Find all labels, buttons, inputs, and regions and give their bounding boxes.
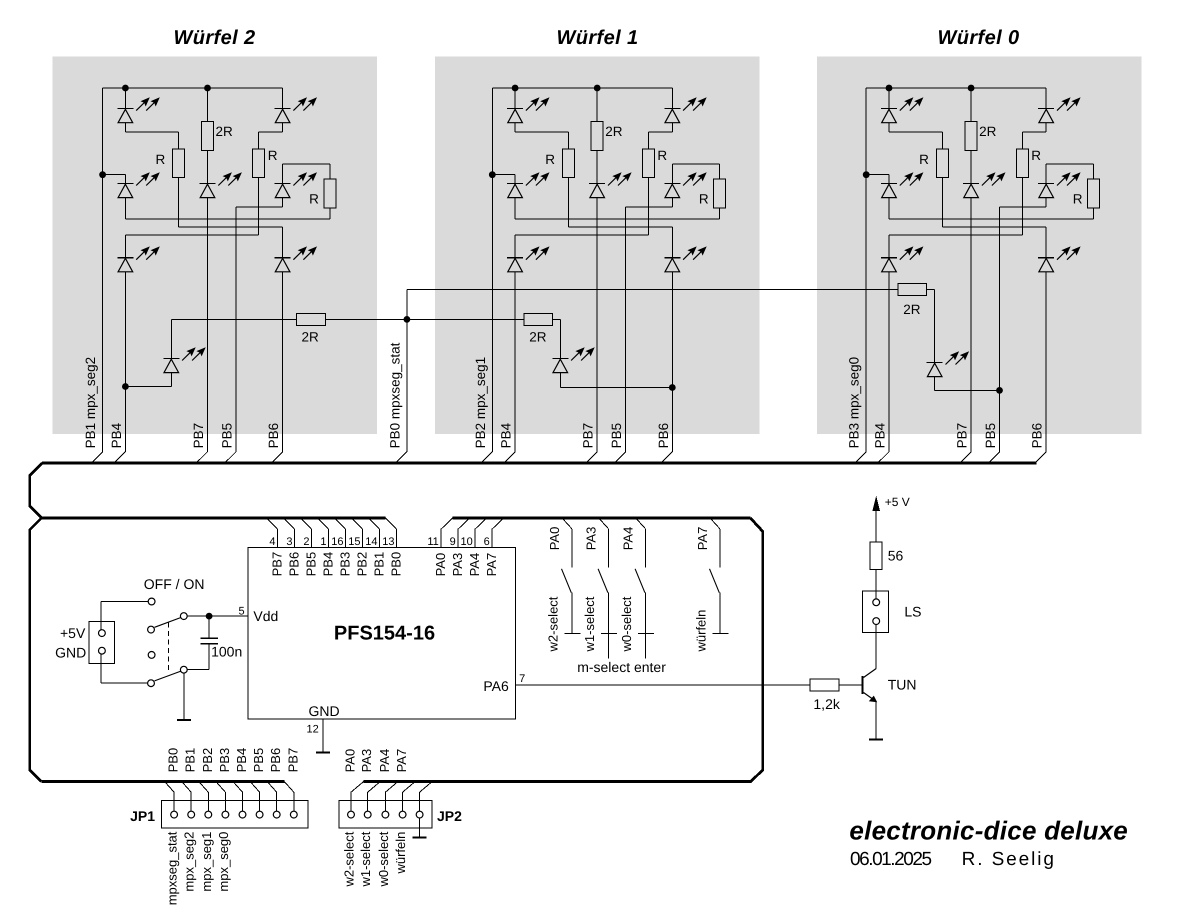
wire W0 D1 cathode [888,88,890,109]
wire W2 D8 cathode [170,319,172,358]
wire bus exit JP1-7 [267,782,277,793]
wire switch w2-select bottom [571,593,573,634]
svg-text:PA3: PA3 [359,749,374,773]
wire bus exit JP1-5 [233,782,243,793]
svg-text:R: R [268,148,278,163]
capacitor C1 100n [200,616,218,670]
LED W2 D7 [275,246,317,271]
svg-text:PA0: PA0 [433,553,448,577]
svg-text:PB2 mpx_seg1: PB2 mpx_seg1 [473,357,488,449]
svg-text:PB3: PB3 [217,748,232,773]
wire W2 D3 anode [124,198,126,219]
LED W0 D6 [881,246,923,271]
wire W1 PB6 column [671,272,673,452]
wire bus entry PB6 W0 [1036,452,1046,462]
svg-text:PA3: PA3 [584,527,599,551]
wire W2 D5 anode [282,198,284,207]
wire cap to switch F [187,669,209,671]
board outline bottom edge left segment [41,780,284,783]
wire W0 D2 cathode [1045,88,1047,109]
svg-text:PB7: PB7 [191,423,206,449]
wire W0 D2 to R2 [1022,131,1046,133]
wire bus exit pin 1 [318,518,329,529]
svg-text:PB0: PB0 [166,748,181,773]
pad JP1 pin 3 [205,811,212,818]
wire bus exit JP2-5 [420,782,433,793]
wire W0 R3 top lead [1093,164,1095,179]
wire W0 R2 top lead [1021,132,1023,149]
svg-text:11: 11 [427,536,438,548]
svg-text:2R: 2R [302,330,320,345]
wire W0 2Rb to D8 [927,289,935,291]
wire W1 D1 cathode [514,88,516,109]
svg-text:electronic-dice deluxe: electronic-dice deluxe [849,816,1128,846]
LED W0 D4 [963,172,1005,197]
wire MCU pin 12 GND [322,719,324,752]
switch terminal C [180,613,187,620]
wire W2 D8 anode [170,373,172,387]
wire top rail W0 [866,87,1046,89]
wire W1 D2 to R2 [648,131,672,133]
wire switch w&#252;rfeln top [719,529,721,568]
pad JP1 pin 5 [239,811,246,818]
svg-text:56: 56 [888,547,904,563]
wire W0 PB7 column [970,198,972,452]
svg-text:R: R [699,192,709,207]
wire bus exit pin 6 [492,518,504,529]
node W0 PB5/D8 [996,387,1003,394]
wire W1 D6 cathode [514,235,516,258]
wire switch w2-select top [571,529,573,568]
wire bus exit pin 16 [335,518,346,529]
wire bus entry PB6 W2 [273,452,283,462]
node top rail A W1 [512,85,519,92]
wire MCU pin 13 PB0 [396,529,398,547]
wire W0 R3 bottom lead [1093,207,1095,219]
board bus band bottom edge right segment [453,517,751,520]
wire bus exit JP2-1 [351,782,364,793]
switch S1 mechanical link [168,623,170,674]
wire bus entry PB2 mpx_seg1 W1 [482,452,492,462]
pad JP1 pin 1 [171,811,178,818]
wire 1,2k to base [839,684,862,686]
LED W2 D5 [275,172,317,197]
wire bus exit JP1-2 [182,782,192,793]
ground switch [177,719,191,721]
LED W2 D8 [163,347,205,372]
wire bus entry PB0 [397,452,407,462]
svg-text:R: R [919,152,929,167]
wire JP2 pin 5 [419,792,421,811]
svg-text:6: 6 [484,536,490,548]
wire bus exit pin 13 [386,518,397,529]
node top rail B W1 [594,85,601,92]
wire bus exit pin 2 [301,518,312,529]
wire W0 D8 cathode [934,290,936,363]
wire top rail W1 [492,87,672,89]
wire W2 PB7 column [207,198,209,452]
wire MCU pin 6 PA7 [491,529,493,547]
svg-text:PB5: PB5 [251,748,266,773]
wire pin 7 PA6 to base resistor [516,684,811,686]
wire bus exit JP1-6 [250,782,260,793]
wire W1 R3 bottom lead [719,207,721,219]
wire W0 D3-R3 bus [889,218,1094,220]
wire W0 D8 anode [934,377,936,391]
pad LS 2 [873,618,880,625]
pad JP1 pin 4 [222,811,229,818]
wire JP1 pin 2 [190,792,192,811]
svg-text:2R: 2R [605,124,623,139]
LED W1 D7 [664,246,706,271]
wire switch w0-select bottom [645,593,647,634]
wire W0 D5 cathode [1045,164,1047,183]
wire R 56 to LS [875,570,877,600]
wire W2 D7 cathode [282,227,284,258]
pad GND [99,647,106,654]
wire PB0 net to 2Rb W0 [407,289,898,291]
wire LS to collector [875,625,877,669]
wire JP1 pin 4 [224,792,226,811]
wire W1 D1 anode [514,123,516,132]
board outline bottom edge right segment [364,518,763,782]
wire bus exit JP1-4 [216,782,226,793]
+5V supply arrow [872,496,880,511]
wire W1 PB5 column [625,207,627,452]
LED W0 D2 [1038,97,1080,122]
LED W0 D3 [881,172,923,197]
svg-text:12: 12 [307,723,319,735]
wire W2 D5-R3 top [283,163,330,165]
wire JP1 pin 5 [242,792,244,811]
svg-text:14: 14 [365,536,377,548]
switch terminal A [148,598,155,605]
svg-text:R. Seelig: R. Seelig [962,849,1056,870]
wire W2 R1 bottom lead [178,178,180,228]
node Vdd cap junction [206,613,213,620]
svg-text:PB1: PB1 [183,748,198,773]
wire W1 R2 to D6 [515,234,648,236]
wire W2 D5 cathode [282,164,284,183]
wire W0 R1 top lead [941,132,943,149]
svg-text:PB5: PB5 [609,423,624,449]
switch terminal E [148,680,155,687]
transistor Q1 TUN [863,669,878,703]
wire left column PB-seg W1 [491,88,493,452]
wire W0 D3 cathode [888,175,890,184]
svg-text:w1-select: w1-select [582,596,597,652]
wire W0 node to D3 [866,174,889,176]
svg-text:PA6: PA6 [483,678,509,694]
wire W1 D3-R3 bus [515,218,720,220]
wire switch F to ground [183,673,185,720]
wire MCU pin 16 PB3 [345,529,347,547]
node left column W0 [863,171,870,178]
wire W0 D3 anode [888,198,890,219]
wire W1 R1 bottom lead [567,178,569,228]
svg-text:PB5: PB5 [304,552,319,577]
svg-text:LS: LS [904,604,921,620]
wire switch w1-select bottom [608,593,610,634]
pad JP1 pin 2 [188,811,195,818]
wire W1 D8 cathode [559,319,561,358]
wire W1 R3 top lead [719,164,721,179]
wire left column PB-seg W0 [865,88,867,452]
resistor 2Rb W2 [297,313,326,325]
wire W2 R3 top lead [329,164,331,179]
pad JP1 pin 7 [273,811,280,818]
wire W2 PB6 column [282,272,284,452]
wire W0 D5 anode [1045,198,1047,207]
wire up to GND pad [100,651,102,684]
pad LS 1 [873,599,880,606]
wire W0 R2 to D6 [889,234,1022,236]
svg-text:GND: GND [309,703,340,719]
wire MCU pin 2 PB5 [311,529,313,547]
svg-text:7: 7 [519,673,525,685]
switch terminal D [148,652,155,659]
wire MCU pin 1 PB4 [328,529,330,547]
node top rail B W0 [968,85,975,92]
wire W2 D1 to R1 [125,131,178,133]
wire W2 R2 bottom lead [258,178,260,236]
wire W1 node to D3 [492,174,515,176]
svg-text:+5V: +5V [60,625,86,641]
wire bus entry PB5 W0 [990,452,1000,462]
wire bus exit pin 15 [352,518,363,529]
LED W1 D5 [664,172,706,197]
wire W1 2R top lead [596,88,598,122]
switch w2-select contact bar [564,632,580,634]
wire W0 D5-R3 top [1046,163,1093,165]
wire W1 2R to D4 [596,150,598,183]
svg-text:PB6: PB6 [287,552,302,577]
wire W2 D5 to PB5 [236,206,283,208]
wire JP2 pin 1 [350,792,352,811]
LED W1 D8 [552,347,594,372]
svg-text:PB3: PB3 [338,552,353,577]
resistor 2Rb W0 [898,284,927,296]
svg-text:PB5: PB5 [983,423,998,449]
svg-text:PB7: PB7 [581,423,596,449]
pad JP2 pin 1 [348,811,355,818]
resistor 2R W1 [591,122,603,151]
wire W0 PB4 column [888,272,890,452]
wire PB0 net to 2Rb W1 [407,318,524,320]
svg-text:PB5: PB5 [220,423,235,449]
resistor R1 W1 [562,149,574,178]
svg-text:9: 9 [450,536,456,548]
wire bus exit pin 9 [458,518,470,529]
wire PB0 mpxseg_stat column [406,290,408,452]
svg-text:PB4: PB4 [321,552,336,577]
Wuerfel 0 background box [817,56,1142,434]
wire switch w&#252;rfeln bottom [719,593,721,634]
wire emitter to ground [875,702,877,740]
resistor R2 W2 [253,149,265,178]
resistor R2 W0 [1016,149,1028,178]
node left column W2 [99,171,106,178]
wire W1 R2 top lead [647,132,649,149]
resistor R3 W1 [714,179,726,208]
node top rail A W2 [122,85,129,92]
svg-text:PB4: PB4 [499,422,514,448]
wire W1 R1 top lead [567,132,569,149]
svg-text:06.01.2025: 06.01.2025 [850,849,931,870]
wire W0 R2 bottom lead [1021,178,1023,236]
pad JP2 pin 2 [364,811,371,818]
MCU U1 PFS154-16 body [248,547,515,719]
switch S1 OFF/ON lever 2 [155,671,181,681]
resistor R3 W2 [324,179,336,208]
svg-text:TUN: TUN [888,676,917,692]
wire bus exit pin 4 [267,518,278,529]
svg-text:w2-select: w2-select [545,596,560,652]
wire bus entry PB7 W0 [961,452,971,462]
svg-text:w2-select: w2-select [342,831,357,887]
svg-text:PA7: PA7 [394,749,409,773]
resistor 1,2k [810,679,839,691]
LED W1 D3 [507,172,549,197]
wire W0 2R top lead [970,88,972,122]
wire W0 R1 to D7 [942,226,1046,228]
wire JP1 pin 3 [207,792,209,811]
svg-text:PA0: PA0 [343,749,358,773]
svg-text:w1-select: w1-select [358,831,373,887]
resistor R1 W0 [936,149,948,178]
switch w2-select lever [562,569,572,593]
node left column W1 [489,171,496,178]
svg-text:JP2: JP2 [437,808,462,824]
LED W2 D2 [275,97,317,122]
wire W2 R2 top lead [258,132,260,149]
wire bus entry PB6 W1 [662,452,672,462]
Wuerfel 1 background box [435,56,759,434]
wire W2 D1 cathode [124,88,126,109]
svg-text:100n: 100n [211,644,242,660]
wire MCU pin 15 PB2 [362,529,364,547]
svg-text:PA4: PA4 [377,749,392,773]
wire bus exit PA7 [711,519,720,529]
wire W2 R1 top lead [178,132,180,149]
wire JP2 pin 2 [367,792,369,811]
pad JP1 pin 8 [290,811,297,818]
svg-text:R: R [309,192,319,207]
wire W1 D2 cathode [671,88,673,109]
wire W2 PB4 column [124,272,126,452]
svg-text:Würfel 1: Würfel 1 [556,27,638,49]
svg-text:OFF / ON: OFF / ON [144,576,205,592]
svg-text:PB4: PB4 [234,748,249,773]
wire MCU pin 10 PA4 [474,529,476,547]
pad JP2 pin 5 [416,811,423,818]
board bus band bottom edge left segment [42,517,386,520]
wire bus exit JP2-2 [368,782,381,793]
svg-text:PB2: PB2 [355,552,370,577]
resistor 2Rb W1 [524,313,553,325]
LED W0 D5 [1038,172,1080,197]
svg-text:Würfel 2: Würfel 2 [173,27,255,49]
pad JP2 pin 4 [399,811,406,818]
wire W0 2R to D4 [970,150,972,183]
wire JP1 pin 7 [276,792,278,811]
wire bus entry PB4 W1 [505,452,515,462]
wire W0 PB6 column [1045,272,1047,452]
wire JP2 pin 4 [402,792,404,811]
svg-text:2R: 2R [216,124,234,139]
switch terminal B [148,626,155,633]
svg-text:w0-select: w0-select [619,596,634,652]
resistor 2R W0 [965,122,977,151]
board bus band left end [30,463,43,518]
wire MCU pin 4 PB7 [277,529,279,547]
LED W2 D6 [117,246,159,271]
wire JP1 pin 1 [173,792,175,811]
svg-text:16: 16 [331,536,343,548]
resistor 2R W2 [202,122,214,151]
wire bus entry PB7 W2 [198,452,208,462]
svg-text:PA4: PA4 [621,527,636,551]
wire W2 D1 anode [124,123,126,132]
wire W1 D5 to PB5 [626,206,673,208]
svg-text:mpxseg_stat: mpxseg_stat [165,831,180,905]
wire W1 D8 anode [559,373,561,388]
board outline left edge [30,518,42,782]
switch w&#252;rfeln lever [710,569,720,593]
LED W1 D6 [507,246,549,271]
wire W0 D6 cathode [888,235,890,258]
svg-text:PB7: PB7 [955,423,970,449]
wire W0 PB5 column [999,207,1001,452]
svg-text:GND: GND [55,645,86,661]
svg-text:PB6: PB6 [268,748,283,773]
wire W2 D2 anode [282,123,284,132]
svg-text:1: 1 [320,536,326,548]
wire W2 R1 to D7 [179,226,283,228]
wire W2 D2 to R2 [259,131,283,133]
svg-text:PB0: PB0 [389,552,404,577]
wire +5V to R 56 [875,511,877,542]
wire JP1 pin 6 [259,792,261,811]
resistor R1 W2 [173,149,185,178]
wire W1 PB4 column [514,272,516,452]
pad +5V [99,630,106,637]
LED W2 D1 [117,97,159,122]
svg-text:15: 15 [348,536,360,548]
switch w1-select lever [598,569,608,593]
wire W1 D5 anode [671,198,673,207]
wire bus exit JP2-3 [385,782,398,793]
wire switch w0-select stub [645,633,647,658]
svg-text:PA7: PA7 [695,527,710,551]
wire W0 D1 anode [888,123,890,132]
speaker LS box [863,591,889,633]
wire W0 D1 to R1 [889,131,942,133]
svg-text:R: R [1031,148,1041,163]
wire bus entry PB3 mpx_seg0 W0 [856,452,866,462]
wire W2 D6 cathode [124,235,126,258]
switch w0-select lever [635,569,645,593]
LED W2 D4 [200,172,242,197]
LED W0 D1 [881,97,923,122]
wire W1 D1 to R1 [515,131,568,133]
wire W1 D2 anode [671,123,673,132]
wire switch E to GND [101,682,148,684]
svg-text:2: 2 [303,536,309,548]
connector JP1 box [162,801,309,828]
board bus band top edge [42,462,1037,465]
wire W1 D3 anode [514,198,516,219]
